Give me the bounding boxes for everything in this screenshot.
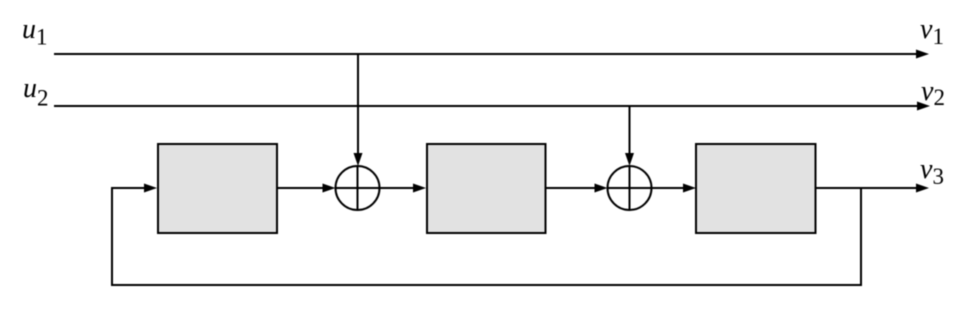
arrowhead into adder 1 top [354, 153, 363, 166]
adder U1 plus vertical [357, 166, 359, 210]
wire tap from u2 down to adder 2 [629, 106, 631, 154]
register box 3 [696, 144, 816, 233]
svg-text:v3: v3 [920, 154, 944, 189]
arrowhead into box2 [413, 184, 426, 193]
arrowhead v1 output [916, 50, 929, 59]
adder U2 plus horizontal [608, 187, 652, 189]
arrowhead into adder1 left [323, 184, 336, 193]
wire adder2 to box3 [652, 187, 685, 189]
wire feedback vertical right [860, 188, 862, 286]
wire feedback bottom horizontal [111, 284, 862, 286]
wire feedback vertical left [111, 187, 113, 286]
register box 2 [427, 144, 546, 233]
wire tap from u1 down to adder 1 [357, 54, 359, 154]
arrowhead v3 output [916, 184, 929, 193]
arrowhead v2 output [917, 102, 930, 111]
arrowhead into box1 [144, 184, 157, 193]
arrowhead into adder2 left [595, 184, 608, 193]
svg-text:v2: v2 [921, 76, 945, 110]
adder U2 (xor circle) [608, 166, 652, 210]
wire feedback into box1 [111, 187, 145, 189]
wire box2 to adder2 [546, 187, 595, 189]
adder U1 plus horizontal [336, 187, 380, 189]
arrowhead into box3 [683, 184, 696, 193]
wire u2 line [54, 105, 918, 107]
wire u1 line [54, 53, 917, 55]
wire adder1 to box2 [380, 187, 415, 189]
adder U1 (xor circle) [336, 166, 380, 210]
svg-text:v1: v1 [920, 14, 944, 49]
arrowhead into adder 2 top [625, 153, 634, 166]
svg-text:u2: u2 [23, 73, 49, 111]
wire box3 to v3 output [816, 187, 918, 189]
wire box1 to adder1 [278, 187, 323, 189]
svg-text:u1: u1 [22, 14, 48, 50]
register box 1 [158, 144, 277, 233]
adder U2 plus vertical [629, 166, 631, 210]
